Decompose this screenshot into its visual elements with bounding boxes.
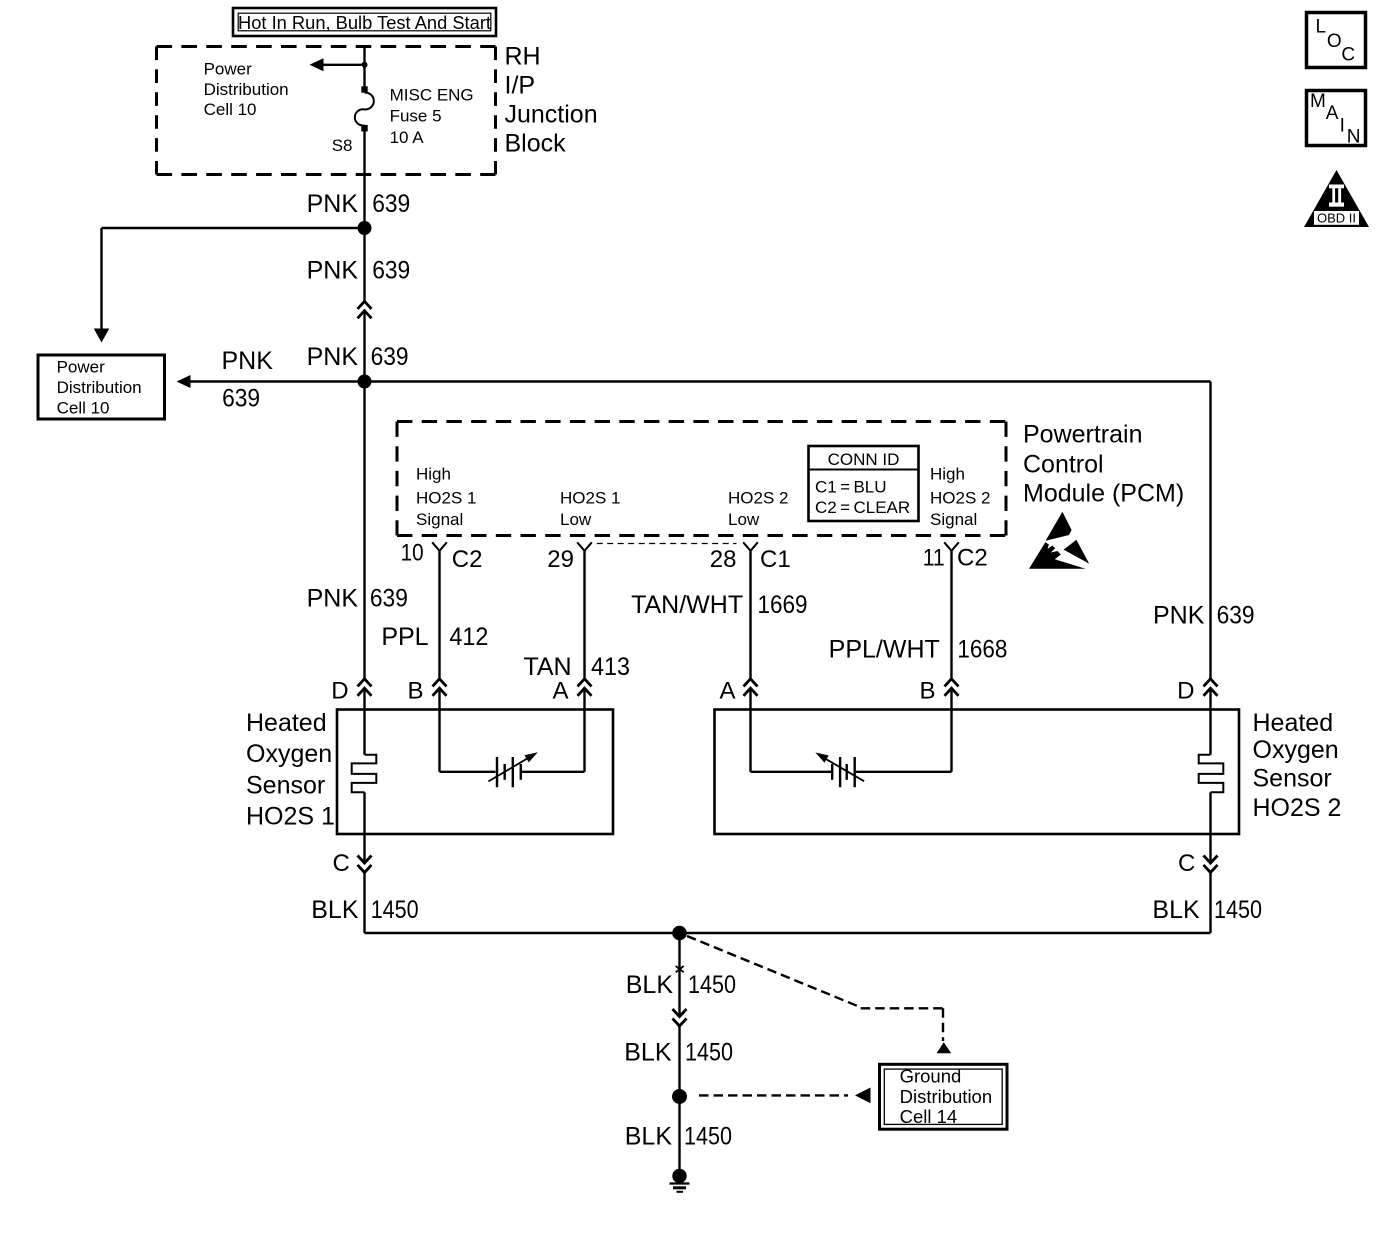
Powertrain Control Module (PCM) dashed box (397, 422, 1006, 536)
svg-text:A: A (552, 678, 568, 705)
svg-text:Sensor: Sensor (1253, 765, 1332, 793)
svg-text:C: C (1341, 44, 1355, 65)
svg-text:Junction: Junction (505, 101, 598, 129)
svg-text:Fuse 5: Fuse 5 (390, 107, 442, 126)
svg-text:11: 11 (923, 545, 945, 572)
wire label TAN 413 (523, 653, 630, 681)
svg-text:B: B (919, 678, 935, 705)
svg-text:BLK: BLK (1152, 896, 1200, 924)
Heated Oxygen Sensor HO2S 1 box (337, 710, 613, 835)
splice x marker (676, 966, 684, 972)
dashed reference from splice to Ground Distribution (699, 1094, 848, 1096)
reference arrowhead up (937, 1042, 952, 1053)
svg-text:MISC ENG: MISC ENG (390, 86, 474, 105)
svg-text:HO2S 2: HO2S 2 (1253, 794, 1342, 822)
HO2S1 sensing element (variable battery) (440, 710, 585, 788)
wire down from bus junction (678, 933, 680, 1016)
svg-text:Low: Low (560, 510, 592, 529)
svg-text:28: 28 (710, 546, 737, 573)
svg-text:I: I (1340, 116, 1345, 137)
svg-text:Distribution: Distribution (204, 80, 289, 99)
svg-text:Block: Block (505, 130, 567, 158)
svg-text:BLK: BLK (626, 971, 674, 999)
wire label PNK 639 above junction 2 (307, 343, 409, 371)
svg-text:639: 639 (371, 343, 409, 371)
svg-text:1669: 1669 (758, 591, 808, 619)
pin 29 (547, 542, 592, 573)
svg-text:Cell 10: Cell 10 (204, 100, 257, 119)
pin 10 C2 (401, 540, 483, 574)
PCM pin function label HO2S 2 Low (728, 489, 788, 530)
PCM pin function label HO2S 1 Low (560, 489, 620, 530)
svg-text:CONN ID: CONN ID (828, 450, 900, 469)
pin 11 C2 (923, 542, 988, 571)
pin C HO2S1 inline connector (332, 834, 371, 933)
svg-text:412: 412 (449, 623, 488, 651)
MAIN corner icon (1307, 91, 1366, 148)
wire pin 10 down (PPL 412) (438, 551, 440, 679)
wire label PPL/WHT 1668 (829, 636, 1008, 664)
svg-text:PNK: PNK (307, 343, 359, 371)
pin 28 C1 (710, 542, 791, 573)
svg-text:BLK: BLK (624, 1039, 672, 1067)
ground G103 symbol (670, 1169, 690, 1192)
svg-text:10: 10 (401, 540, 424, 567)
wire label PNK 639 (307, 256, 411, 284)
svg-text:C2: C2 (957, 545, 988, 572)
wire connector to junction 2 (363, 311, 365, 382)
svg-text:PNK: PNK (1153, 601, 1205, 629)
inline connector (double chevron down) (673, 1009, 687, 1026)
svg-text:HO2S 1: HO2S 1 (246, 803, 335, 831)
pin D HO2S1 inline connector (331, 678, 371, 710)
svg-text:639: 639 (372, 256, 410, 284)
svg-text:PNK: PNK (307, 190, 359, 218)
wire pin 11 down (PPL/WHT 1668) (950, 551, 952, 679)
svg-text:Cell 14: Cell 14 (900, 1106, 958, 1127)
pin C HO2S2 inline connector (1178, 834, 1218, 933)
svg-text:A: A (1326, 103, 1339, 124)
dashed reference vertical (942, 1008, 944, 1041)
svg-text:1450: 1450 (371, 896, 419, 924)
svg-text:1450: 1450 (688, 971, 736, 999)
svg-text:Signal: Signal (930, 510, 977, 529)
svg-text:A: A (719, 678, 735, 705)
svg-text:OBD II: OBD II (1317, 211, 1356, 226)
svg-text:D: D (1177, 678, 1194, 705)
svg-text:BLK: BLK (311, 896, 359, 924)
wire label PNK 639 (to pin D HO2S1) (307, 584, 408, 612)
wire label BLK 1450 (626, 971, 736, 999)
RH I/P Junction Block label (505, 43, 598, 158)
wire junction 2 to right (PNK 639 to HO2S 2) (365, 380, 1211, 382)
wire down left PNK to HO2S1 pin D (363, 382, 365, 679)
OBD II corner icon (1304, 170, 1369, 227)
wire junction to inline connector (363, 228, 365, 301)
svg-text:RH: RH (505, 43, 541, 71)
svg-text:1450: 1450 (685, 1039, 733, 1067)
node junction dot 2 (358, 375, 372, 389)
svg-text:639: 639 (372, 190, 410, 218)
svg-text:HO2S 1: HO2S 1 (560, 489, 620, 508)
wire label PNK 639 (to pin D HO2S2) (1153, 601, 1255, 629)
HO2S 2 label (1253, 709, 1342, 822)
wire label BLK 1450 (625, 1123, 732, 1151)
svg-text:Cell 10: Cell 10 (57, 399, 110, 418)
svg-text:Power: Power (57, 358, 106, 377)
svg-text:C2 = CLEAR: C2 = CLEAR (815, 498, 910, 517)
LOC corner icon (1307, 13, 1366, 68)
node junction dot bottom bus (672, 926, 687, 941)
wire from junction block top edge down to fuse (363, 47, 365, 87)
wire pin 29 down (TAN 413) (583, 551, 585, 679)
svg-text:Power: Power (204, 59, 253, 78)
svg-text:C: C (332, 850, 349, 877)
svg-text:PNK: PNK (307, 256, 359, 284)
svg-text:Signal: Signal (416, 510, 463, 529)
node junction dot (358, 221, 372, 235)
svg-text:Low: Low (728, 510, 760, 529)
HO2S2 sensing element (variable battery) (751, 710, 952, 788)
svg-text:L: L (1316, 17, 1327, 38)
wire arrow into Power Distribution box (177, 375, 365, 388)
svg-text:PNK: PNK (307, 584, 359, 612)
Ground Distribution Cell 14 reference box (880, 1064, 1008, 1129)
PCM pin function label High HO2S 2 Signal (930, 465, 990, 530)
svg-text:10 A: 10 A (390, 128, 425, 147)
svg-text:Hot In Run, Bulb Test And Star: Hot In Run, Bulb Test And Start (238, 13, 491, 33)
svg-text:BLK: BLK (625, 1123, 673, 1151)
svg-text:1450: 1450 (684, 1123, 732, 1151)
fuse MISC ENG Fuse 5 10 A (332, 86, 474, 155)
svg-text:Distribution: Distribution (57, 378, 142, 397)
svg-text:PPL/WHT: PPL/WHT (829, 636, 940, 664)
HO2S 1 label (246, 709, 335, 831)
svg-text:C2: C2 (452, 546, 483, 573)
svg-text:C1: C1 (760, 546, 791, 573)
Powertrain Control Module (PCM) label (1023, 421, 1184, 508)
pin B HO2S1 inline connector (407, 678, 446, 710)
svg-text:413: 413 (591, 653, 630, 681)
svg-text:HO2S 2: HO2S 2 (728, 489, 788, 508)
CONN ID table (809, 446, 919, 521)
wire down right PNK to HO2S2 pin D (1209, 382, 1211, 679)
svg-text:1450: 1450 (1214, 896, 1262, 924)
arrow to Power Distribution Cell 10 (internal) (310, 58, 365, 71)
wire pin 28 down (TAN/WHT 1669) (749, 551, 751, 679)
wire to ground (678, 1097, 680, 1177)
node label box "Hot In Run, Bulb Test And Start" (233, 8, 496, 36)
pin A HO2S2 inline connector (719, 678, 757, 710)
pin D HO2S2 inline connector (1177, 678, 1217, 710)
svg-text:PPL: PPL (381, 623, 428, 651)
wire label BLK 1450 left (311, 896, 418, 924)
svg-text:Heated: Heated (1253, 709, 1334, 737)
wire left branch to Power Distribution box (94, 228, 365, 343)
svg-text:M: M (1310, 91, 1326, 112)
svg-text:639: 639 (370, 584, 408, 612)
Heated Oxygen Sensor HO2S 2 box (715, 710, 1240, 835)
svg-text:B: B (407, 678, 423, 705)
svg-text:Heated: Heated (246, 709, 327, 737)
PCM pin function label High HO2S 1 Signal (416, 465, 476, 530)
svg-text:N: N (1347, 126, 1361, 147)
wire connector to splice junction (678, 1026, 680, 1097)
svg-text:1668: 1668 (957, 636, 1007, 664)
svg-text:High: High (416, 465, 451, 484)
wire bottom bus BLK (365, 932, 1211, 935)
svg-text:Distribution: Distribution (900, 1086, 993, 1107)
svg-text:High: High (930, 465, 965, 484)
svg-text:PNK: PNK (222, 347, 274, 375)
RH I/P Junction Block dashed box (157, 47, 496, 175)
svg-text:639: 639 (222, 385, 260, 413)
reference arrowhead left (855, 1088, 871, 1104)
svg-text:O: O (1327, 31, 1342, 52)
node splice junction dot (672, 1089, 687, 1104)
svg-text:HO2S 2: HO2S 2 (930, 489, 990, 508)
inline connector (double chevron) (358, 301, 372, 318)
svg-text:639: 639 (1217, 601, 1255, 629)
svg-text:Module (PCM): Module (PCM) (1023, 480, 1184, 508)
svg-text:Oxygen: Oxygen (1253, 736, 1339, 764)
pin A HO2S1 inline connector (552, 678, 591, 710)
dashed connector link line (597, 543, 737, 545)
HO2S1 heater element (352, 710, 377, 835)
svg-text:Oxygen: Oxygen (246, 740, 332, 768)
HO2S2 heater element (1199, 710, 1224, 835)
svg-text:D: D (331, 678, 348, 705)
ESD sensitivity symbol (1029, 512, 1089, 569)
node S8 junction dot (362, 62, 368, 68)
svg-text:Sensor: Sensor (246, 772, 325, 800)
wire label PNK 639 (307, 190, 411, 218)
wire label TAN/WHT 1669 (631, 591, 807, 619)
svg-text:HO2S 1: HO2S 1 (416, 489, 476, 508)
svg-text:S8: S8 (332, 136, 353, 155)
svg-text:Control: Control (1023, 451, 1104, 479)
svg-text:C1 = BLU: C1 = BLU (815, 478, 887, 497)
dashed reference horizontal (861, 1007, 943, 1009)
svg-text:C: C (1178, 850, 1195, 877)
wire label PPL 412 (381, 623, 488, 651)
svg-text:Ground: Ground (900, 1066, 962, 1087)
svg-text:Powertrain: Powertrain (1023, 421, 1143, 449)
wire label BLK 1450 (624, 1039, 733, 1067)
dashed reference diagonal to Ground Distribution (687, 936, 861, 1007)
Power Distribution Cell 10 reference box (38, 355, 165, 419)
svg-text:TAN/WHT: TAN/WHT (631, 591, 743, 619)
svg-text:I/P: I/P (505, 72, 536, 100)
wire fuse to junction (363, 132, 365, 229)
wire label BLK 1450 right (1152, 896, 1262, 924)
svg-text:29: 29 (547, 546, 574, 573)
pin B HO2S2 inline connector (919, 678, 958, 710)
